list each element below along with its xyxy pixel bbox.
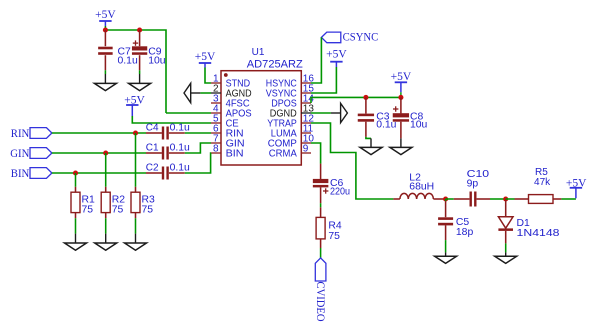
- svg-text:CVIDEO: CVIDEO: [314, 282, 328, 322]
- wire junction to R5: [506, 198, 515, 200]
- power +5V (VSYNC): [326, 48, 347, 67]
- U1 pin 11 LUMA: [271, 124, 314, 140]
- ground below C5: [435, 252, 457, 263]
- port CSYNC (output): [321, 29, 378, 43]
- svg-text:R4: R4: [328, 221, 342, 232]
- ground below R1: [65, 234, 87, 251]
- wire BIN to C2: [52, 172, 146, 174]
- ground below C9: [129, 74, 151, 91]
- resistor R1 75: [71, 187, 95, 218]
- U1 pin 5 CE: [211, 114, 239, 130]
- svg-text:10u: 10u: [148, 55, 166, 66]
- power symbol DGND arrow (pin 13): [331, 103, 348, 122]
- capacitor C3 0.1u: [358, 97, 397, 136]
- wire C3 to ground: [366, 137, 371, 139]
- wire U1 pin 10 COMP to C6: [311, 143, 321, 164]
- capacitor C10 9p: [454, 169, 490, 206]
- junction DPOS/C8: [398, 95, 403, 100]
- junction GIN/R2: [103, 150, 108, 155]
- svg-text:C4: C4: [146, 122, 159, 133]
- svg-text:47k: 47k: [534, 177, 551, 188]
- resistor R4 75: [316, 207, 342, 248]
- svg-text:18p: 18p: [456, 227, 474, 238]
- svg-text:AD725ARZ: AD725ARZ: [247, 59, 303, 71]
- junction rail/C7: [103, 27, 108, 32]
- ground below R2: [95, 234, 117, 251]
- svg-text:220u: 220u: [330, 187, 350, 198]
- U1 pin 3 4FSC: [211, 94, 250, 110]
- svg-text:75: 75: [82, 205, 94, 216]
- junction BIN/R1: [73, 170, 78, 175]
- svg-text:+5V: +5V: [391, 71, 412, 83]
- wire +5V to U1 pin 15 VSYNC: [311, 67, 336, 93]
- svg-text:0.1u: 0.1u: [170, 122, 190, 133]
- svg-text:C2: C2: [146, 162, 159, 173]
- ground below R3: [125, 234, 147, 251]
- junction rail/C9: [137, 27, 142, 32]
- wire GIN to C1: [52, 152, 146, 154]
- power +5V (R5): [566, 177, 587, 198]
- junction L2/C5/C10: [443, 196, 448, 201]
- svg-text:BIN: BIN: [226, 148, 244, 159]
- svg-text:8: 8: [213, 144, 219, 155]
- resistor R5 47k: [515, 167, 562, 203]
- capacitor C1 0.1u: [146, 142, 190, 159]
- U1 pin 4 APOS: [211, 104, 252, 120]
- ground below D1: [495, 252, 517, 263]
- capacitor C7 0.1u: [98, 30, 138, 74]
- wire R5 to +5V: [561, 198, 576, 200]
- wire R1 to ground: [75, 218, 77, 233]
- power +5V (CE): [124, 94, 145, 116]
- port BIN (input): [11, 166, 52, 180]
- U1 pin 1 STND: [211, 74, 250, 90]
- svg-text:75: 75: [328, 231, 340, 242]
- U1 pin 16 HSYNC: [266, 74, 315, 90]
- U1 pin 10 COMP: [268, 134, 315, 150]
- wire U1 pin 13 DGND to arrow: [311, 112, 331, 114]
- svg-text:CRMA: CRMA: [269, 148, 297, 159]
- svg-text:+5V: +5V: [326, 48, 347, 60]
- wire +5V rail across C7/C9 to APOS: [105, 26, 166, 113]
- wire rail to U1 pin 4 APOS: [166, 112, 211, 114]
- wire R3 to ground: [135, 218, 137, 233]
- svg-text:0.1u: 0.1u: [170, 162, 190, 173]
- wire +5V to U1 pin 5 CE: [132, 116, 211, 123]
- wire AGND to U1 pin 2: [200, 92, 211, 94]
- wire L2 junction to C10: [446, 198, 454, 200]
- port RIN (input): [11, 126, 52, 140]
- capacitor C8 10u (polarized): [393, 97, 428, 138]
- power +5V (STND): [195, 51, 216, 67]
- wire R3 to input row: [135, 133, 137, 187]
- wire U1 pin 12 YTRAP to L2: [311, 123, 393, 199]
- wire C4 to U1 pin 6 RIN: [185, 132, 211, 134]
- wire U1 pin 14 DPOS to C3/C8: [311, 97, 401, 103]
- svg-text:68uH: 68uH: [409, 182, 434, 193]
- wire C10 to D1/R5: [490, 198, 506, 200]
- U1 pin 12 YTRAP: [267, 114, 314, 130]
- wire C5 to ground: [445, 240, 447, 252]
- wire +5V to U1 pin 1 STND: [205, 68, 211, 84]
- junction DPOS/C3: [363, 95, 368, 100]
- power +5V (C7/C9 rail): [95, 9, 116, 26]
- capacitor C2 0.1u: [146, 162, 190, 179]
- resistor R3 75: [131, 187, 155, 218]
- ground below C3: [360, 138, 382, 154]
- svg-text:C1: C1: [146, 142, 159, 153]
- svg-text:75: 75: [112, 205, 124, 216]
- wire R4 to CVIDEO: [320, 248, 322, 258]
- svg-text:9: 9: [303, 144, 309, 155]
- capacitor C6 220u (polarized): [313, 164, 350, 204]
- svg-text:9p: 9p: [467, 178, 479, 189]
- op-amp/encoder IC U1 AD725ARZ body: [221, 47, 303, 165]
- svg-text:0.1u: 0.1u: [170, 142, 190, 153]
- svg-text:CSYNC: CSYNC: [343, 29, 379, 43]
- capacitor C9 10u (polarized): [132, 30, 166, 74]
- svg-text:GIN: GIN: [10, 146, 29, 160]
- svg-text:0.1u: 0.1u: [118, 55, 138, 66]
- U1 pin 14 DPOS: [271, 94, 314, 110]
- junction C10/D1/R5: [503, 196, 508, 201]
- capacitor C4 0.1u: [146, 122, 190, 139]
- wire RIN to C4: [52, 132, 146, 134]
- svg-text:BIN: BIN: [11, 166, 30, 180]
- U1 pin 2 AGND: [211, 84, 252, 100]
- U1 pin 7 GIN: [211, 134, 245, 150]
- ground below C7: [94, 74, 116, 91]
- port GIN (input): [10, 146, 52, 160]
- inductor L2 68uH: [393, 172, 445, 199]
- U1 pin 8 BIN: [211, 144, 244, 160]
- wire R2 to ground: [105, 218, 107, 233]
- svg-text:10u: 10u: [410, 119, 428, 130]
- U1 pin 6 RIN: [211, 124, 244, 140]
- U1 pin 15 VSYNC: [266, 84, 315, 100]
- power symbol AGND arrow (pin 2): [184, 83, 200, 102]
- diode D1 1N4148: [498, 199, 560, 243]
- junction RIN/R3: [133, 130, 138, 135]
- svg-text:U1: U1: [252, 47, 265, 58]
- wire C6 to R4: [320, 203, 322, 207]
- resistor R2 75: [101, 187, 125, 218]
- U1 pin 13 DGND: [270, 104, 315, 120]
- svg-text:RIN: RIN: [11, 126, 30, 140]
- svg-text:+5V: +5V: [95, 9, 116, 21]
- wire C2 to U1 pin 8 BIN: [185, 153, 211, 173]
- power +5V (DPOS/C8): [391, 71, 412, 98]
- wire R2 to input row: [105, 153, 107, 187]
- wire C1 to U1 pin 7 GIN: [185, 143, 211, 153]
- svg-text:1N4148: 1N4148: [517, 228, 561, 239]
- U1 pin 9 CRMA: [269, 144, 311, 160]
- svg-text:+5V: +5V: [195, 51, 216, 63]
- svg-text:75: 75: [142, 205, 154, 216]
- ground below C8: [390, 138, 412, 154]
- wire R1 to input row: [75, 173, 77, 187]
- wire CSYNC to U1 pin 16 HSYNC: [311, 37, 321, 83]
- port CVIDEO (output): [314, 258, 328, 322]
- capacitor C5 18p: [438, 199, 473, 240]
- wire D1 to ground: [505, 243, 507, 252]
